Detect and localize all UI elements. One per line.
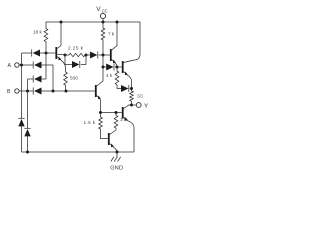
transistor Q1 xyxy=(55,22,65,72)
diode D7 xyxy=(121,85,132,92)
svg-text:GND: GND xyxy=(110,166,123,172)
diode D3 xyxy=(33,75,41,82)
resistor 18 k xyxy=(33,22,48,53)
diode clamp B xyxy=(24,128,30,136)
wire N1 row xyxy=(22,52,56,54)
node Q3 base xyxy=(116,66,119,69)
resistor 60 xyxy=(130,89,143,106)
transistor Q6 xyxy=(108,130,117,152)
wire parallel diode branch xyxy=(65,55,86,65)
node E1 right xyxy=(85,54,88,57)
diode D5 xyxy=(90,52,110,59)
wire N2 column xyxy=(97,55,103,86)
node N1 xyxy=(45,52,48,55)
diode D1 xyxy=(32,49,40,56)
transistor Q2 xyxy=(110,22,117,67)
svg-text:18 k: 18 k xyxy=(33,30,43,35)
svg-text:500: 500 xyxy=(70,76,78,81)
wire A to D1 xyxy=(21,53,23,65)
svg-text:2.25 k: 2.25 k xyxy=(68,46,84,51)
resistor 4 k xyxy=(106,67,121,89)
node A junction xyxy=(20,64,23,67)
wire A row xyxy=(19,65,53,91)
svg-text:60: 60 xyxy=(137,94,143,100)
node 3k top xyxy=(115,111,118,114)
svg-text:4 k: 4 k xyxy=(106,73,113,78)
VCC terminal xyxy=(96,6,107,22)
node Q3 emitter xyxy=(130,87,133,90)
node rail-Q2 xyxy=(116,21,119,24)
svg-text:CC: CC xyxy=(102,9,108,14)
ground xyxy=(110,152,123,172)
wire splitter row xyxy=(101,112,122,114)
node Y xyxy=(130,104,133,107)
node N2 lower xyxy=(102,66,105,69)
input A xyxy=(8,63,20,69)
resistor 1.5 k xyxy=(84,113,108,139)
svg-text:B: B xyxy=(7,89,11,95)
node clamp B gnd xyxy=(26,151,29,154)
diode Dp xyxy=(72,61,80,68)
diode D4 xyxy=(33,87,41,94)
diode D2 xyxy=(33,61,41,68)
wire B row xyxy=(19,90,95,92)
node rail-VCC xyxy=(102,21,105,24)
resistor 2.25 k xyxy=(65,46,86,57)
node E1 xyxy=(64,54,67,57)
resistor 500 xyxy=(64,72,79,91)
wire GND rail xyxy=(22,151,135,153)
svg-text:V: V xyxy=(96,6,101,13)
resistor 3 k xyxy=(114,113,127,131)
wire VCC rail xyxy=(46,21,140,23)
wire clamp A xyxy=(21,65,23,152)
node B junction xyxy=(26,90,29,93)
transistor Q3 xyxy=(122,60,134,89)
svg-text:Y: Y xyxy=(144,103,148,110)
diode clamp A xyxy=(18,118,24,126)
resistor 7 k xyxy=(101,22,115,55)
wire rail right drop to Q3 collector xyxy=(134,22,140,60)
node N2 xyxy=(102,54,105,57)
svg-text:A: A xyxy=(8,63,12,69)
svg-text:1.5 k: 1.5 k xyxy=(84,120,96,125)
wire E1 to D5 xyxy=(86,54,90,56)
node rail-Q1 xyxy=(60,21,63,24)
transistor Q5 xyxy=(122,105,134,152)
node M D2 xyxy=(52,90,55,93)
node Q6 emitter gnd xyxy=(116,151,119,154)
node Q4 emitter xyxy=(99,111,102,114)
svg-text:7 k: 7 k xyxy=(108,32,115,37)
wire D3 branch xyxy=(28,53,47,91)
diode D6 xyxy=(103,64,122,71)
node M 500 xyxy=(65,90,68,93)
wire clamp B xyxy=(27,91,29,152)
transistor Q4 xyxy=(95,85,101,113)
input B xyxy=(7,89,19,95)
output Y xyxy=(132,103,149,110)
